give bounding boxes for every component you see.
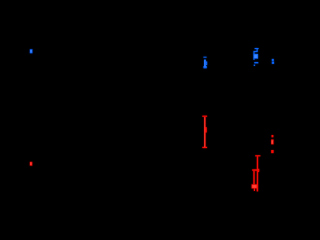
Q1 value label : two-line blue text, right of Q1	[272, 59, 274, 64]
LED D1 : red diode symbol with arrows, bottom right	[252, 155, 261, 191]
capacitor C1 : small blue vertical component, middle top	[203, 57, 207, 69]
node A : blue net flag label, top-left	[30, 49, 33, 53]
node B : red net flag label, bottom-left	[30, 162, 33, 166]
transistor Q1 : blue symbol with name text, top right	[253, 48, 258, 66]
resistor R1 : red vertical component, middle	[202, 116, 207, 149]
D1 name/value label : three red text blobs, right side	[271, 135, 273, 153]
